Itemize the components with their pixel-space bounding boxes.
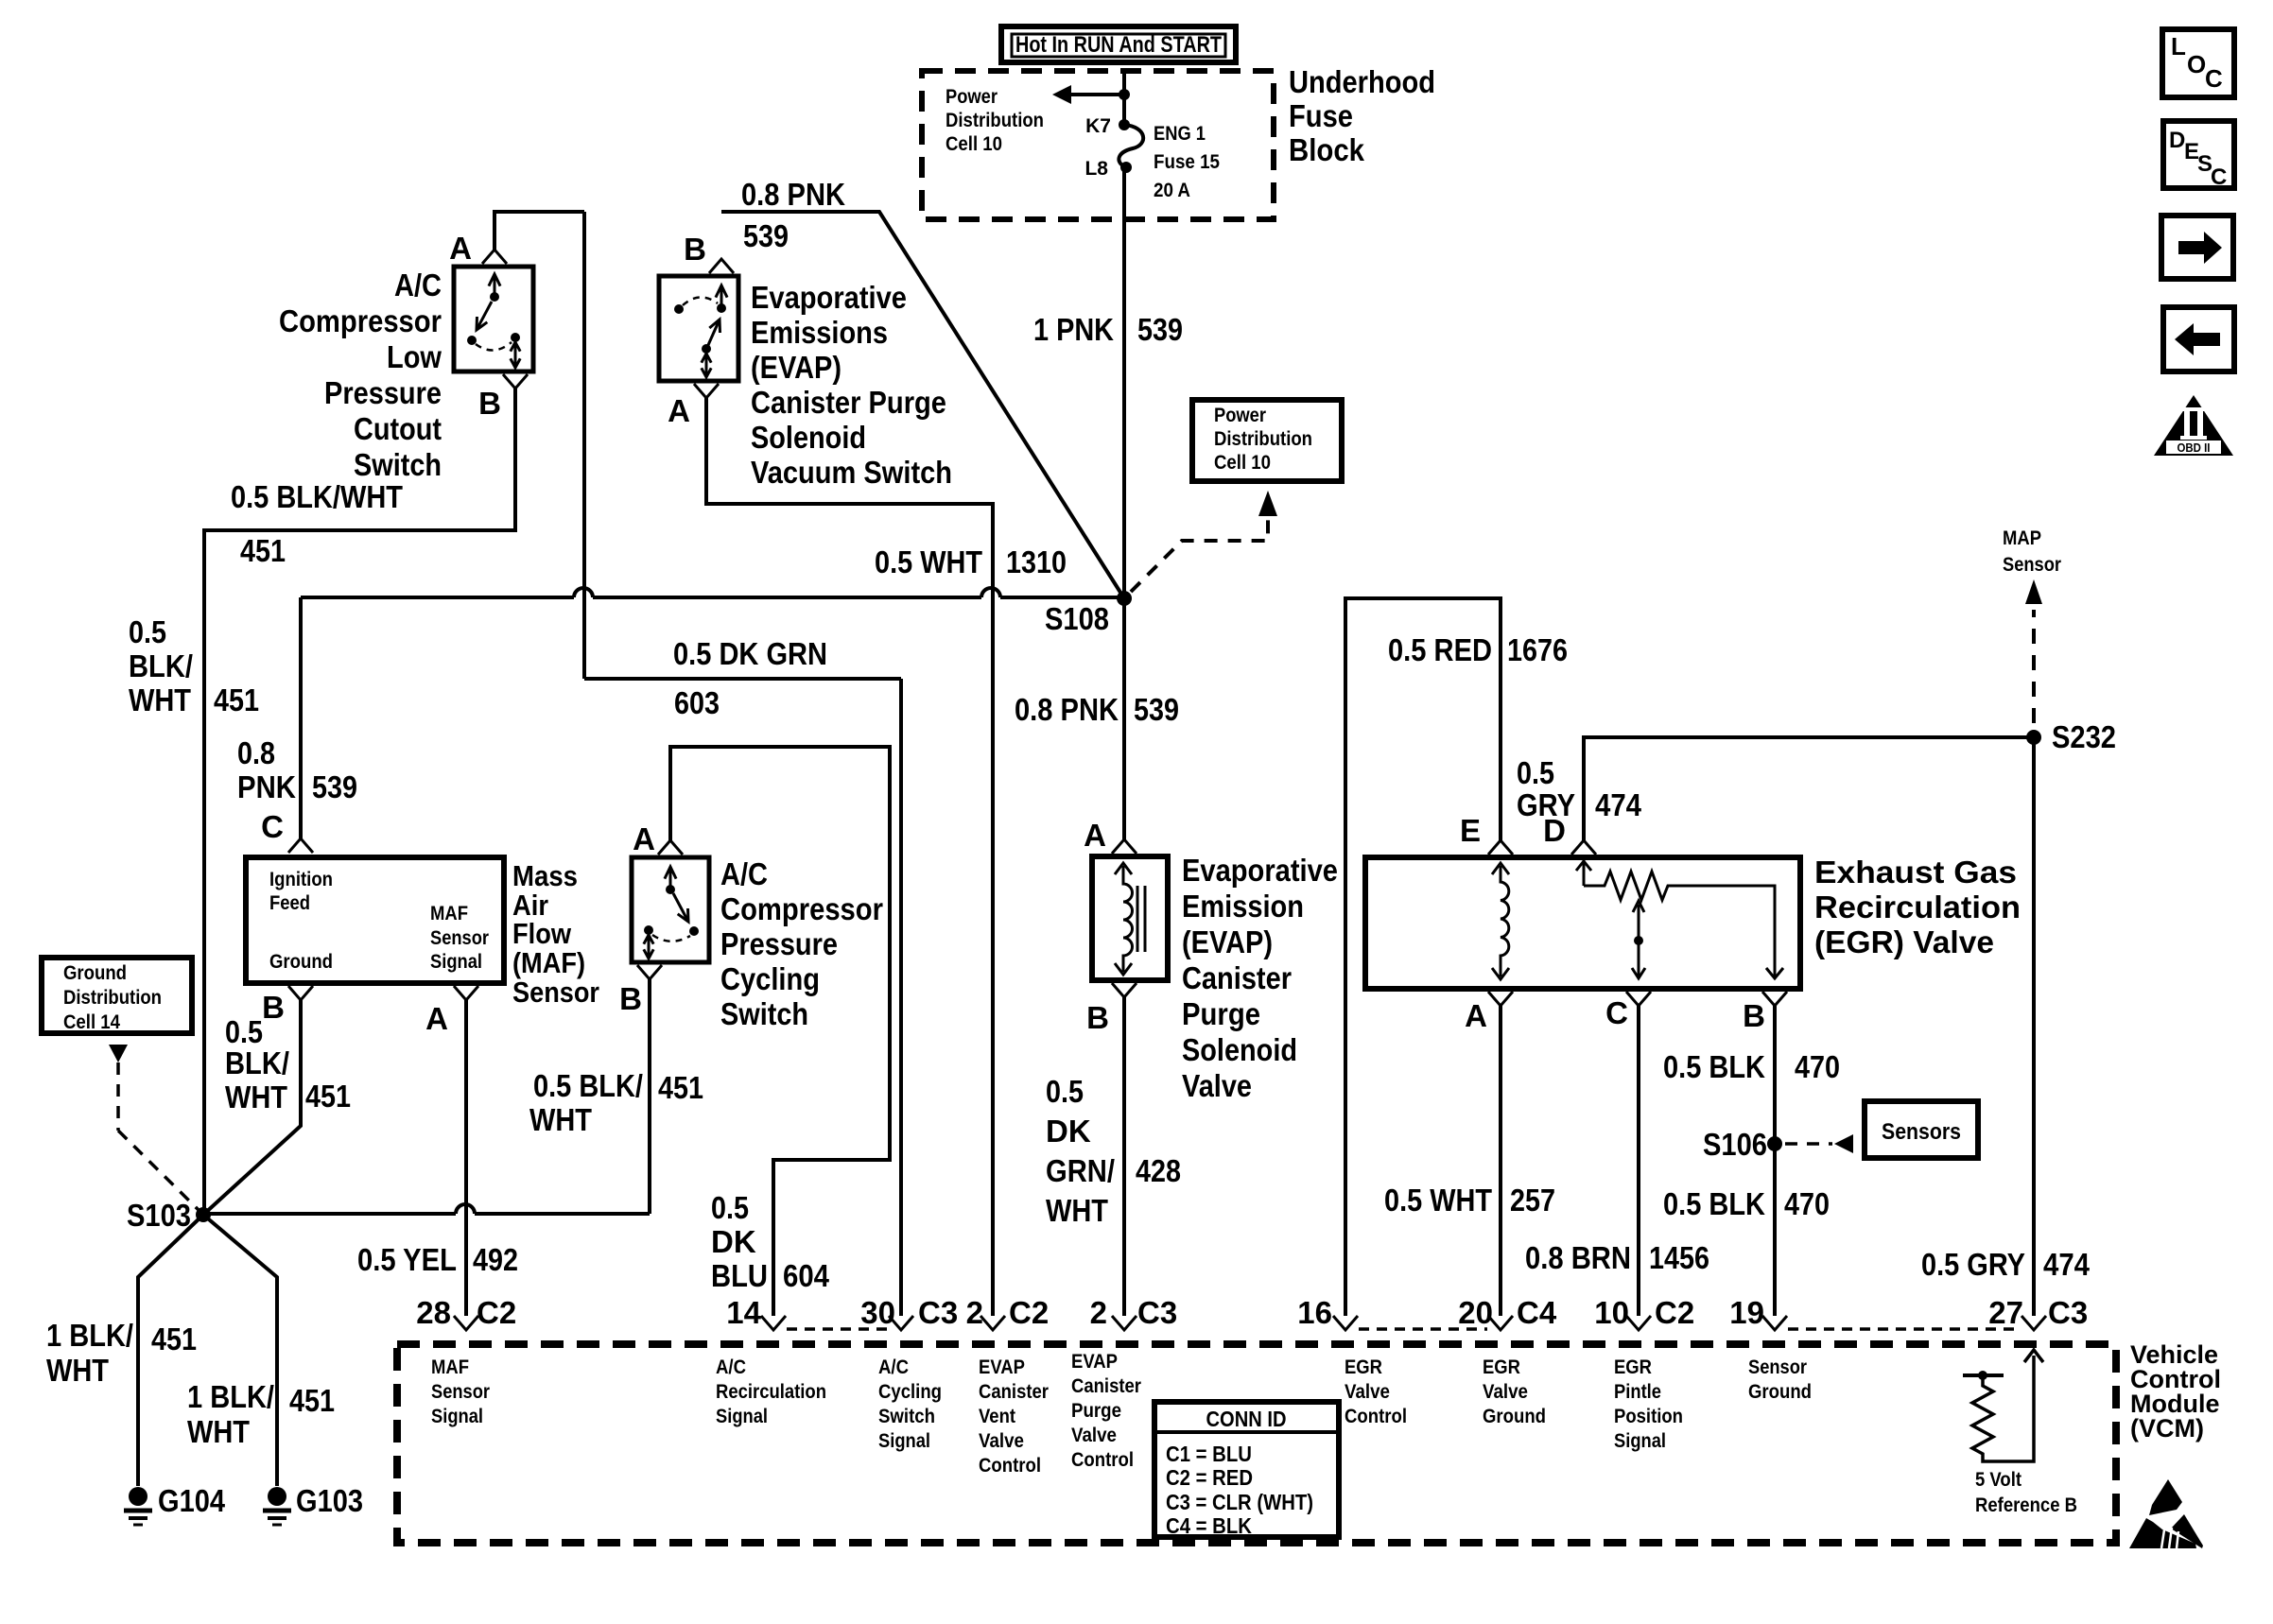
label Evaporative Emission (EVAP) Canister Purge Solenoid Valve xyxy=(1182,853,1338,1103)
legend OBD II triangle xyxy=(2154,395,2233,456)
svg-text:C: C xyxy=(261,809,284,844)
label 0.5 WHT 257 xyxy=(1384,1183,1555,1218)
svg-text:Underhood: Underhood xyxy=(1289,64,1435,99)
svg-text:A: A xyxy=(1084,818,1106,853)
svg-text:0.5: 0.5 xyxy=(129,614,166,649)
svg-text:Control: Control xyxy=(979,1455,1041,1477)
svg-text:27: 27 xyxy=(1988,1295,2023,1330)
svg-text:28: 28 xyxy=(416,1295,451,1330)
svg-text:Signal: Signal xyxy=(1614,1430,1666,1452)
label Vehicle Control Module (VCM) xyxy=(2130,1340,2221,1443)
terminal B (EGR) xyxy=(1743,992,1787,1033)
svg-text:WHT: WHT xyxy=(529,1102,592,1137)
svg-text:C2: C2 xyxy=(477,1295,516,1330)
svg-text:451: 451 xyxy=(305,1079,351,1114)
solenoid EVAP Canister Purge Solenoid Valve box xyxy=(1092,856,1168,980)
pin 20 C4 VCM xyxy=(1458,1295,1557,1330)
label 0.8 BRN 1456 xyxy=(1525,1240,1709,1275)
svg-text:539: 539 xyxy=(312,769,357,804)
svg-text:Block: Block xyxy=(1289,132,1365,167)
svg-text:451: 451 xyxy=(151,1322,197,1356)
svg-text:Reference B: Reference B xyxy=(1975,1494,2077,1516)
svg-text:Ground: Ground xyxy=(269,951,333,973)
svg-text:B: B xyxy=(1743,998,1765,1033)
svg-text:0.8: 0.8 xyxy=(237,735,275,770)
svg-text:(EVAP): (EVAP) xyxy=(1182,924,1273,959)
svg-text:Purge: Purge xyxy=(1071,1400,1121,1422)
svg-text:Signal: Signal xyxy=(878,1430,930,1452)
svg-text:Canister: Canister xyxy=(1071,1375,1141,1397)
terminal C (MAF) xyxy=(261,809,313,853)
svg-text:Signal: Signal xyxy=(716,1406,768,1427)
svg-text:MAP: MAP xyxy=(2003,527,2041,549)
svg-text:E: E xyxy=(1460,813,1481,848)
switch EVAP Canister Purge Solenoid Vacuum Switch box xyxy=(659,276,738,381)
svg-text:Ground: Ground xyxy=(1483,1406,1546,1427)
pin 2 C3 VCM xyxy=(1090,1295,1178,1330)
label 0.8 PNK 539 (MAF feed) xyxy=(237,735,357,804)
node S232 xyxy=(2026,719,2116,754)
switch A/C Compressor Pressure Cycling Switch box xyxy=(632,857,709,962)
svg-text:A: A xyxy=(1465,998,1487,1033)
dashed leader S106 to Sensors xyxy=(1785,1134,1853,1153)
svg-text:Sensor: Sensor xyxy=(512,976,599,1009)
underhood fuse block dashed box xyxy=(922,71,1274,219)
svg-text:0.5 WHT: 0.5 WHT xyxy=(875,544,982,579)
svg-text:A: A xyxy=(425,1001,448,1036)
svg-text:604: 604 xyxy=(783,1258,830,1293)
svg-text:0.5: 0.5 xyxy=(1046,1074,1084,1109)
wire 1 PNK 539 main vertical xyxy=(1122,167,1126,839)
label A/C Compressor Low Pressure Cutout Switch xyxy=(279,268,442,482)
svg-text:Distribution: Distribution xyxy=(946,110,1044,131)
label 0.5 BLK/WHT 451 (MAF ground) xyxy=(225,1014,351,1114)
label 0.5 DK BLU 604 xyxy=(711,1190,830,1293)
terminal A (cutout switch) xyxy=(449,231,507,266)
pin 30 C3 VCM xyxy=(860,1295,958,1330)
svg-text:A: A xyxy=(668,393,690,428)
wire MAF C ignition feed (0.8 PNK 539) xyxy=(299,597,303,838)
svg-text:(MAF): (MAF) xyxy=(512,946,585,979)
svg-text:1310: 1310 xyxy=(1006,544,1067,579)
svg-text:Vacuum Switch: Vacuum Switch xyxy=(751,455,952,490)
svg-text:451: 451 xyxy=(240,533,286,568)
box Power Distribution Cell 10 xyxy=(1192,400,1342,481)
label 0.5 BLK/WHT 451 (mid-left) xyxy=(129,614,259,717)
terminal A (EVAP valve) xyxy=(1084,818,1136,854)
svg-text:EGR: EGR xyxy=(1614,1356,1652,1378)
label 0.5 WHT 1310 xyxy=(875,544,1067,579)
svg-text:S108: S108 xyxy=(1045,601,1109,636)
component EGR Valve box xyxy=(1365,857,1800,989)
svg-text:2: 2 xyxy=(1090,1295,1107,1330)
svg-text:WHT: WHT xyxy=(225,1080,287,1114)
svg-text:Solenoid: Solenoid xyxy=(1182,1032,1297,1067)
svg-text:C: C xyxy=(1605,995,1628,1030)
svg-text:EGR: EGR xyxy=(1483,1356,1520,1378)
pin 16 VCM xyxy=(1297,1295,1358,1330)
svg-text:470: 470 xyxy=(1784,1186,1830,1221)
svg-text:G103: G103 xyxy=(296,1483,363,1518)
label 0.5 BLK 470 (upper) xyxy=(1663,1049,1840,1084)
svg-text:Emission: Emission xyxy=(1182,889,1304,924)
svg-text:451: 451 xyxy=(289,1383,335,1418)
terminal B (cutout switch) xyxy=(478,374,528,421)
wire 0.5 DK GRN 603 xyxy=(584,679,901,1316)
svg-text:0.8 PNK: 0.8 PNK xyxy=(1015,692,1119,727)
node S106 xyxy=(1703,1127,1782,1162)
switch A/C Compressor Low Pressure Cutout Switch box xyxy=(454,267,533,371)
svg-text:Distribution: Distribution xyxy=(1214,428,1312,450)
terminal A (MAF) xyxy=(425,986,478,1036)
wire S103 to G104 xyxy=(138,1215,203,1486)
svg-text:Mass: Mass xyxy=(512,859,578,892)
label 1 BLK/WHT 451 (G104) xyxy=(46,1318,197,1388)
terminal B (EVAP valve) xyxy=(1086,983,1136,1035)
dashed connector pins 16-20 xyxy=(1359,1327,1487,1331)
svg-text:Valve: Valve xyxy=(1182,1068,1252,1103)
svg-text:BLK/: BLK/ xyxy=(129,648,193,683)
legend LOC box xyxy=(2162,29,2234,97)
svg-text:Evaporative: Evaporative xyxy=(1182,853,1338,888)
svg-text:539: 539 xyxy=(743,218,789,253)
resistor 5 Volt Reference B xyxy=(1963,1350,2077,1516)
legend left arrow box xyxy=(2163,307,2234,371)
svg-text:D: D xyxy=(2169,128,2185,153)
wire cutout A up-over-down to DK GRN xyxy=(495,212,584,679)
pin text EGR Pintle Position Signal xyxy=(1614,1356,1683,1452)
svg-text:Pintle: Pintle xyxy=(1614,1381,1661,1403)
svg-text:474: 474 xyxy=(1595,787,1642,822)
svg-text:1 BLK/: 1 BLK/ xyxy=(46,1318,133,1353)
svg-text:Solenoid: Solenoid xyxy=(751,420,866,455)
label 0.5 DK GRN 603 xyxy=(673,636,827,720)
wire cutout B to S103 (451) xyxy=(204,389,515,1213)
svg-text:G104: G104 xyxy=(158,1483,226,1518)
label 0.5 BLK/WHT 451 (cycling B) xyxy=(529,1068,703,1137)
terminal B (cycling switch) xyxy=(619,965,662,1016)
pin 14 VCM xyxy=(726,1295,786,1330)
ground G104 xyxy=(124,1483,226,1525)
svg-text:A/C: A/C xyxy=(394,268,442,302)
svg-text:Recirculation: Recirculation xyxy=(1814,890,2021,924)
svg-text:16: 16 xyxy=(1297,1295,1332,1330)
svg-text:Canister Purge: Canister Purge xyxy=(751,385,946,420)
fuse ENG 1 Fuse 15 20 A xyxy=(1084,115,1220,201)
label Underhood Fuse Block xyxy=(1289,64,1435,167)
label Exhaust Gas Recirculation (EGR) Valve xyxy=(1814,855,2021,959)
pin text EVAP Canister Vent Valve Control xyxy=(979,1356,1049,1477)
wire EGR C to VCM pin 10 xyxy=(1637,1006,1640,1316)
label 0.5 BLK/WHT 451 (top) xyxy=(231,479,403,568)
svg-text:MAF: MAF xyxy=(430,903,468,924)
svg-text:WHT: WHT xyxy=(187,1414,250,1449)
svg-text:0.5 GRY: 0.5 GRY xyxy=(1921,1247,2025,1282)
svg-text:Compressor: Compressor xyxy=(720,891,883,926)
svg-text:S103: S103 xyxy=(127,1198,191,1233)
dashed connector pins 19-27 xyxy=(1788,1327,2021,1331)
svg-text:C3: C3 xyxy=(1137,1295,1177,1330)
svg-text:K7: K7 xyxy=(1085,115,1111,137)
svg-text:20 A: 20 A xyxy=(1154,180,1190,201)
svg-text:539: 539 xyxy=(1134,692,1179,727)
terminal C (EGR) xyxy=(1605,992,1651,1030)
svg-text:0.5: 0.5 xyxy=(711,1190,749,1225)
svg-text:603: 603 xyxy=(674,685,720,720)
svg-text:Cycling: Cycling xyxy=(720,961,820,996)
svg-text:GRY: GRY xyxy=(1517,787,1575,822)
svg-text:20: 20 xyxy=(1458,1295,1493,1330)
label Power Distribution Cell 10 (fuse block) xyxy=(946,86,1044,155)
svg-text:Cell 10: Cell 10 xyxy=(946,133,1002,155)
svg-text:451: 451 xyxy=(214,682,259,717)
svg-text:OBD II: OBD II xyxy=(2178,441,2211,455)
label 0.5 GRY 474 (pin 27) xyxy=(1921,1247,2091,1282)
label 0.5 YEL 492 xyxy=(357,1242,518,1277)
label A/C Compressor Pressure Cycling Switch xyxy=(720,856,883,1031)
pin text Sensor Ground xyxy=(1748,1356,1812,1403)
svg-text:2: 2 xyxy=(966,1295,983,1330)
wire diagonal 0.8 PNK to S108 xyxy=(721,212,1124,598)
svg-text:Evaporative: Evaporative xyxy=(751,280,907,315)
svg-text:Ground: Ground xyxy=(1748,1381,1812,1403)
label 0.5 GRY 474 (upper) xyxy=(1517,755,1642,822)
svg-text:Valve: Valve xyxy=(979,1430,1024,1452)
svg-text:Signal: Signal xyxy=(431,1406,483,1427)
terminal A (EGR) xyxy=(1465,992,1513,1033)
svg-text:1 PNK: 1 PNK xyxy=(1033,312,1114,347)
svg-text:0.5: 0.5 xyxy=(1517,755,1554,790)
svg-text:0.8 BRN: 0.8 BRN xyxy=(1525,1240,1631,1275)
svg-text:Canister: Canister xyxy=(1182,960,1292,995)
label 0.5 DK GRN/ WHT 428 xyxy=(1046,1074,1181,1228)
wire cycling A to VCM pin 14 xyxy=(670,747,890,1316)
svg-text:Signal: Signal xyxy=(430,951,482,973)
svg-text:EGR: EGR xyxy=(1345,1356,1382,1378)
pin 10 C2 VCM xyxy=(1594,1295,1694,1330)
svg-text:Cutout: Cutout xyxy=(354,411,442,446)
svg-text:0.5 BLK/: 0.5 BLK/ xyxy=(533,1068,643,1103)
svg-text:Sensor: Sensor xyxy=(430,927,489,949)
svg-text:C2 = RED: C2 = RED xyxy=(1166,1465,1253,1490)
header box Hot In RUN And START xyxy=(1001,26,1236,62)
wire MAF B ground to S103 xyxy=(203,1000,301,1215)
svg-text:10: 10 xyxy=(1594,1295,1629,1330)
svg-text:Sensor: Sensor xyxy=(431,1381,490,1403)
svg-text:C2: C2 xyxy=(1655,1295,1694,1330)
svg-text:ENG 1: ENG 1 xyxy=(1154,123,1206,145)
svg-text:Sensor: Sensor xyxy=(1748,1356,1807,1378)
svg-text:428: 428 xyxy=(1136,1153,1181,1188)
svg-text:0.5 YEL: 0.5 YEL xyxy=(357,1242,457,1277)
svg-text:C3 = CLR (WHT): C3 = CLR (WHT) xyxy=(1166,1490,1313,1514)
svg-text:(VCM): (VCM) xyxy=(2130,1414,2204,1443)
svg-text:Valve: Valve xyxy=(1345,1381,1390,1403)
svg-text:C3: C3 xyxy=(2048,1295,2088,1330)
svg-text:A/C: A/C xyxy=(878,1356,909,1378)
svg-text:Pressure: Pressure xyxy=(324,375,442,410)
svg-text:492: 492 xyxy=(473,1242,518,1277)
svg-text:Exhaust Gas: Exhaust Gas xyxy=(1814,855,2017,890)
pin text A/C Recirculation Signal xyxy=(716,1356,826,1427)
svg-text:WHT: WHT xyxy=(129,682,191,717)
svg-text:0.5 WHT: 0.5 WHT xyxy=(1384,1183,1492,1218)
wire EGR B sensor ground to VCM pin 19 xyxy=(1773,1006,1777,1316)
svg-text:S106: S106 xyxy=(1703,1127,1767,1162)
svg-text:C4: C4 xyxy=(1517,1295,1557,1330)
svg-text:Valve: Valve xyxy=(1071,1425,1117,1446)
terminal D (EGR) xyxy=(1543,813,1596,855)
svg-text:B: B xyxy=(619,981,642,1016)
svg-text:474: 474 xyxy=(2043,1247,2091,1282)
svg-text:Hot In RUN And START: Hot In RUN And START xyxy=(1015,32,1222,58)
dashed leader Ground Distribution to S103 xyxy=(109,1045,200,1211)
dashed leader S108 to Power Distribution xyxy=(1131,491,1277,592)
dashed connector pins 14-30 xyxy=(787,1327,888,1331)
svg-text:S232: S232 xyxy=(2052,719,2116,754)
svg-text:0.5 RED: 0.5 RED xyxy=(1388,632,1492,667)
svg-text:C1 = BLU: C1 = BLU xyxy=(1166,1442,1252,1466)
terminal B (vacuum switch) xyxy=(684,232,734,273)
wire cycling B to S103 with hop xyxy=(204,979,650,1214)
svg-text:(EGR) Valve: (EGR) Valve xyxy=(1814,924,1994,959)
svg-text:B: B xyxy=(262,990,285,1025)
svg-text:14: 14 xyxy=(726,1295,761,1330)
box Sensors xyxy=(1865,1101,1978,1158)
box Vehicle Control Module (VCM) dashed xyxy=(397,1344,2116,1543)
svg-text:L8: L8 xyxy=(1084,158,1108,180)
svg-text:DK: DK xyxy=(711,1224,756,1259)
pin text MAF Sensor Signal xyxy=(431,1356,490,1427)
terminal B (MAF) xyxy=(262,986,313,1025)
wire MAF A signal to VCM pin 28 xyxy=(464,1000,468,1316)
svg-text:30: 30 xyxy=(860,1295,895,1330)
svg-text:WHT: WHT xyxy=(46,1353,109,1388)
svg-text:Switch: Switch xyxy=(354,447,442,482)
wire hot feed into fuse block xyxy=(1122,71,1126,125)
terminal E (EGR) xyxy=(1460,813,1513,855)
svg-text:Emissions: Emissions xyxy=(751,315,888,350)
component MAF sensor box xyxy=(246,857,504,983)
wire feed arrow to power distribution xyxy=(1052,85,1130,104)
box Ground Distribution Cell 14 xyxy=(42,958,192,1033)
label 0.8 PNK 539 (top) xyxy=(741,177,845,253)
svg-text:Ground: Ground xyxy=(63,962,127,984)
svg-text:451: 451 xyxy=(658,1070,703,1105)
legend DESC box xyxy=(2163,121,2234,190)
svg-text:(EVAP): (EVAP) xyxy=(751,350,842,385)
svg-text:Cell 10: Cell 10 xyxy=(1214,452,1271,474)
svg-text:5 Volt: 5 Volt xyxy=(1975,1469,2021,1491)
svg-text:Fuse 15: Fuse 15 xyxy=(1154,151,1220,173)
svg-text:Valve: Valve xyxy=(1483,1381,1528,1403)
svg-text:1676: 1676 xyxy=(1507,632,1568,667)
svg-text:C2: C2 xyxy=(1009,1295,1049,1330)
svg-text:19: 19 xyxy=(1729,1295,1764,1330)
wire vacuum switch A to VCM pin 2 C2 xyxy=(706,398,993,1316)
svg-text:1 BLK/: 1 BLK/ xyxy=(187,1379,274,1414)
pin 19 VCM xyxy=(1729,1295,1787,1330)
dashed leader S232 to MAP sensor xyxy=(2003,527,2061,723)
svg-text:Ignition: Ignition xyxy=(269,869,333,890)
svg-text:BLK/: BLK/ xyxy=(225,1045,289,1080)
pin text A/C Cycling Switch Signal xyxy=(878,1356,942,1452)
svg-text:Sensor: Sensor xyxy=(2003,554,2061,576)
svg-text:EVAP: EVAP xyxy=(979,1356,1025,1378)
svg-text:Position: Position xyxy=(1614,1406,1683,1427)
svg-text:EVAP: EVAP xyxy=(1071,1351,1118,1373)
node S103 xyxy=(127,1198,211,1233)
pin text EGR Valve Control xyxy=(1345,1356,1407,1427)
svg-text:B: B xyxy=(478,386,501,421)
label Evaporative Emissions (EVAP) Canister Purge Solenoid Vacuum Switch xyxy=(751,280,952,490)
svg-text:Canister: Canister xyxy=(979,1381,1049,1403)
svg-text:B: B xyxy=(684,232,706,267)
wire EVAP valve B to VCM pin 2 C3 xyxy=(1122,997,1126,1316)
svg-text:Fuse: Fuse xyxy=(1289,98,1353,133)
svg-text:Cycling: Cycling xyxy=(878,1381,942,1403)
svg-text:C: C xyxy=(2205,64,2223,93)
svg-text:Distribution: Distribution xyxy=(63,987,162,1009)
svg-text:O: O xyxy=(2187,50,2206,78)
label 0.5 BLK 470 (lower) xyxy=(1663,1186,1830,1221)
svg-text:Purge: Purge xyxy=(1182,996,1260,1031)
wire 0.5 WHT horizontal to S108 with hops xyxy=(301,588,1124,597)
label 0.5 RED 1676 xyxy=(1388,632,1568,667)
svg-text:1456: 1456 xyxy=(1649,1240,1709,1275)
label 1 BLK/WHT 451 (G103) xyxy=(187,1379,335,1449)
svg-text:CONN ID: CONN ID xyxy=(1206,1407,1287,1431)
svg-text:Vent: Vent xyxy=(979,1406,1015,1427)
svg-text:0.5 BLK: 0.5 BLK xyxy=(1663,1049,1765,1084)
svg-text:Control: Control xyxy=(1071,1449,1134,1471)
svg-text:257: 257 xyxy=(1510,1183,1555,1218)
label Mass Air Flow (MAF) Sensor xyxy=(512,859,599,1009)
wire EGR E control to VCM pin 16 xyxy=(1345,598,1501,1316)
pin text EGR Valve Ground xyxy=(1483,1356,1546,1427)
label 0.8 PNK 539 (below S108) xyxy=(1015,692,1179,727)
svg-text:Recirculation: Recirculation xyxy=(716,1381,826,1403)
wire EGR D pintle signal to S232 xyxy=(1584,737,2034,840)
svg-text:DK: DK xyxy=(1046,1114,1091,1149)
svg-text:PNK: PNK xyxy=(237,769,296,804)
svg-text:0.5 BLK/WHT: 0.5 BLK/WHT xyxy=(231,479,403,514)
svg-text:A: A xyxy=(449,231,472,266)
symbol ESD warning triangle xyxy=(2129,1479,2203,1548)
terminal A (cycling switch) xyxy=(633,821,683,856)
terminal A (vacuum switch) xyxy=(668,384,719,428)
svg-text:C: C xyxy=(2211,164,2227,190)
label 1 PNK 539 xyxy=(1033,312,1183,347)
svg-text:Low: Low xyxy=(387,339,442,374)
svg-text:Flow: Flow xyxy=(512,917,572,950)
svg-text:470: 470 xyxy=(1795,1049,1840,1084)
legend right arrow box xyxy=(2161,216,2233,279)
svg-text:Switch: Switch xyxy=(878,1406,935,1427)
svg-text:A/C: A/C xyxy=(716,1356,746,1378)
svg-text:A/C: A/C xyxy=(720,856,768,891)
wire S103 to G103 xyxy=(203,1215,277,1486)
svg-text:Pressure: Pressure xyxy=(720,926,838,961)
svg-text:Cell 14: Cell 14 xyxy=(63,1011,120,1033)
svg-text:0.5 BLK: 0.5 BLK xyxy=(1663,1186,1765,1221)
svg-text:Compressor: Compressor xyxy=(279,303,442,338)
svg-text:B: B xyxy=(1086,1000,1109,1035)
svg-text:Switch: Switch xyxy=(720,996,808,1031)
svg-text:Power: Power xyxy=(1214,405,1266,426)
pin 28 C2 VCM xyxy=(416,1295,516,1330)
svg-text:C4 = BLK: C4 = BLK xyxy=(1166,1513,1252,1538)
